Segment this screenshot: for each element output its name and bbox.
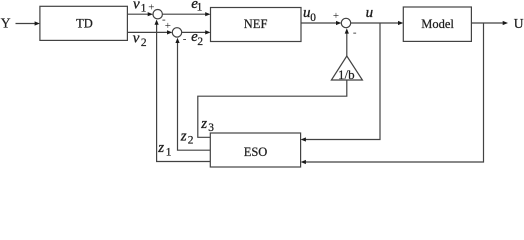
svg-text:u: u — [366, 5, 374, 21]
svg-text:v: v — [133, 0, 140, 12]
svg-text:+: + — [333, 10, 339, 22]
svg-text:1: 1 — [197, 2, 203, 14]
svg-text:TD: TD — [76, 17, 93, 31]
svg-text:1: 1 — [141, 2, 147, 14]
svg-text:-: - — [183, 33, 187, 45]
svg-text:1/b: 1/b — [338, 67, 355, 82]
svg-text:NEF: NEF — [244, 17, 268, 31]
svg-text:0: 0 — [310, 12, 316, 24]
svg-text:ESO: ESO — [244, 145, 268, 159]
svg-text:z: z — [180, 129, 187, 145]
svg-text:2: 2 — [188, 135, 194, 147]
svg-text:z: z — [157, 140, 164, 156]
svg-text:z: z — [200, 116, 207, 132]
svg-text:U: U — [514, 16, 524, 31]
svg-text:2: 2 — [141, 37, 147, 49]
svg-text:-: - — [353, 26, 357, 38]
svg-text:1: 1 — [166, 147, 172, 159]
svg-text:+: + — [165, 20, 171, 32]
svg-text:Y: Y — [1, 15, 11, 30]
svg-text:+: + — [148, 2, 154, 14]
svg-text:v: v — [133, 31, 140, 47]
svg-text:3: 3 — [208, 122, 214, 134]
svg-text:Model: Model — [421, 17, 454, 31]
svg-text:2: 2 — [197, 36, 203, 48]
